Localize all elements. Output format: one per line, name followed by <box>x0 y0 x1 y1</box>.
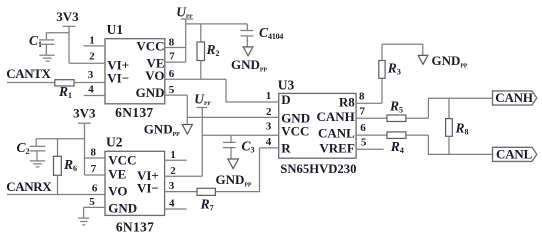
pin 5 U2 <box>84 196 105 217</box>
power U_PP (top) <box>176 5 193 63</box>
svg-text:2: 2 <box>266 106 272 118</box>
wire <box>7 194 105 196</box>
transistor U3 SN65HVD230 <box>278 77 357 176</box>
wire CANL net <box>428 135 492 154</box>
svg-text:4: 4 <box>266 136 272 148</box>
ground GND_PP (R3) <box>418 53 468 70</box>
svg-text:CANH: CANH <box>317 109 355 124</box>
svg-text:GND: GND <box>108 201 137 216</box>
wire CANH net <box>428 98 492 118</box>
svg-text:2: 2 <box>170 165 176 177</box>
wire GND net U1-U3 <box>187 116 278 118</box>
op-amp U2 6N137 optocoupler <box>105 135 165 235</box>
resistor R6 <box>54 139 78 195</box>
wire VO U1 to D U3 <box>226 79 279 102</box>
pin 1 U2 <box>165 149 187 161</box>
svg-text:7: 7 <box>360 106 366 118</box>
svg-text:U2: U2 <box>106 135 123 150</box>
svg-text:GND: GND <box>136 85 165 100</box>
svg-text:CANL: CANL <box>318 125 355 140</box>
node CANH flag <box>493 90 537 105</box>
power U_PP (middle) <box>194 91 211 176</box>
svg-text:VCC: VCC <box>136 39 164 54</box>
svg-text:VCC: VCC <box>281 123 309 138</box>
power 3V3 (top left) <box>56 9 79 63</box>
pin 5 U1 <box>165 84 188 96</box>
svg-text:7: 7 <box>91 163 97 175</box>
wire R7 to R U3 <box>215 148 259 192</box>
pin 8 U2 <box>85 146 106 158</box>
wire U_PP to VCC U3 <box>202 134 278 136</box>
svg-text:VE: VE <box>108 167 126 182</box>
svg-text:5: 5 <box>89 196 95 208</box>
svg-text:8: 8 <box>90 146 96 158</box>
svg-text:3: 3 <box>88 69 94 81</box>
wire to GND_PP <box>382 44 423 55</box>
pin 3 U2 <box>165 180 197 192</box>
pin 7 U1 <box>165 50 186 62</box>
svg-text:8: 8 <box>359 91 365 103</box>
wire C2/R6 tee <box>36 138 84 140</box>
ground (U2 pin5) <box>78 218 89 225</box>
pin 2 U1 <box>69 51 105 64</box>
svg-text:D: D <box>281 92 290 107</box>
node CANL flag <box>493 147 537 162</box>
svg-text:VI−: VI− <box>107 71 129 86</box>
capacitor C2 <box>17 139 46 161</box>
svg-text:R8: R8 <box>339 95 355 110</box>
resistor R5 <box>387 99 428 122</box>
capacitor C4 104 <box>240 24 283 47</box>
svg-text:1: 1 <box>89 34 95 46</box>
svg-text:2: 2 <box>89 51 95 63</box>
svg-text:VREF: VREF <box>319 141 354 156</box>
svg-text:1: 1 <box>170 149 176 161</box>
svg-text:4: 4 <box>169 198 175 210</box>
pin 4 U2 <box>165 198 187 210</box>
wire U_PP rail <box>186 23 248 25</box>
svg-text:VO: VO <box>108 183 127 198</box>
svg-text:SN65HVD230: SN65HVD230 <box>280 162 356 176</box>
svg-text:VCC: VCC <box>108 153 136 168</box>
capacitor C3 <box>223 135 255 159</box>
capacitor C1 <box>29 32 69 55</box>
svg-text:8: 8 <box>169 36 175 48</box>
svg-text:6: 6 <box>360 122 366 134</box>
svg-text:6N137: 6N137 <box>115 105 153 120</box>
svg-text:3V3: 3V3 <box>56 9 79 24</box>
svg-text:VO: VO <box>145 68 164 83</box>
pin 6 U3 <box>356 122 387 135</box>
pin 7 U2 <box>85 163 106 175</box>
pin 4 U3 <box>260 136 279 148</box>
ground (C2) <box>30 161 45 167</box>
svg-text:CANL: CANL <box>496 147 533 162</box>
pin 8 U1 <box>165 36 186 48</box>
svg-text:6: 6 <box>169 68 175 80</box>
resistor R1 <box>55 80 74 100</box>
wire GND U1 down <box>186 95 188 124</box>
svg-text:3: 3 <box>266 121 272 133</box>
ground GND_PP (C3) <box>216 159 252 189</box>
power 3V3 (lower) <box>73 106 96 175</box>
svg-text:U3: U3 <box>278 77 295 92</box>
svg-text:CANTX: CANTX <box>6 66 51 81</box>
pin 7 U3 <box>356 106 387 119</box>
pin 2 U2 <box>165 165 203 177</box>
svg-text:1: 1 <box>266 90 272 102</box>
svg-text:6N137: 6N137 <box>116 219 154 234</box>
resistor R7 <box>197 188 215 212</box>
pin 8 U3 <box>356 91 382 104</box>
svg-text:R: R <box>281 140 291 155</box>
op-amp U1 6N137 optocoupler <box>105 22 165 120</box>
svg-text:U1: U1 <box>107 22 124 37</box>
svg-text:3: 3 <box>169 180 175 192</box>
svg-text:3V3: 3V3 <box>73 106 96 121</box>
resistor R4 <box>387 132 428 155</box>
ground GND_PP (C4) <box>231 47 267 74</box>
pin 1 U1 <box>84 34 106 46</box>
resistor R3 <box>379 44 401 103</box>
pin 5 U3 <box>356 136 384 149</box>
wire <box>74 82 105 84</box>
svg-text:5: 5 <box>361 136 367 148</box>
ground GND_PP (U1 pin5) <box>144 122 193 139</box>
svg-text:6: 6 <box>92 183 98 195</box>
svg-text:4: 4 <box>88 84 94 96</box>
pin 6 U1 <box>165 68 226 80</box>
ground (C1) <box>40 55 55 61</box>
svg-text:CANH: CANH <box>495 90 533 105</box>
svg-text:5: 5 <box>169 84 175 96</box>
wire <box>7 82 55 84</box>
pin 4 U1 <box>84 84 105 96</box>
svg-text:CANRX: CANRX <box>6 179 52 194</box>
resistor R8 <box>446 98 469 154</box>
svg-text:VI−: VI− <box>137 181 159 196</box>
svg-text:7: 7 <box>169 50 175 62</box>
resistor R2 <box>197 24 220 79</box>
